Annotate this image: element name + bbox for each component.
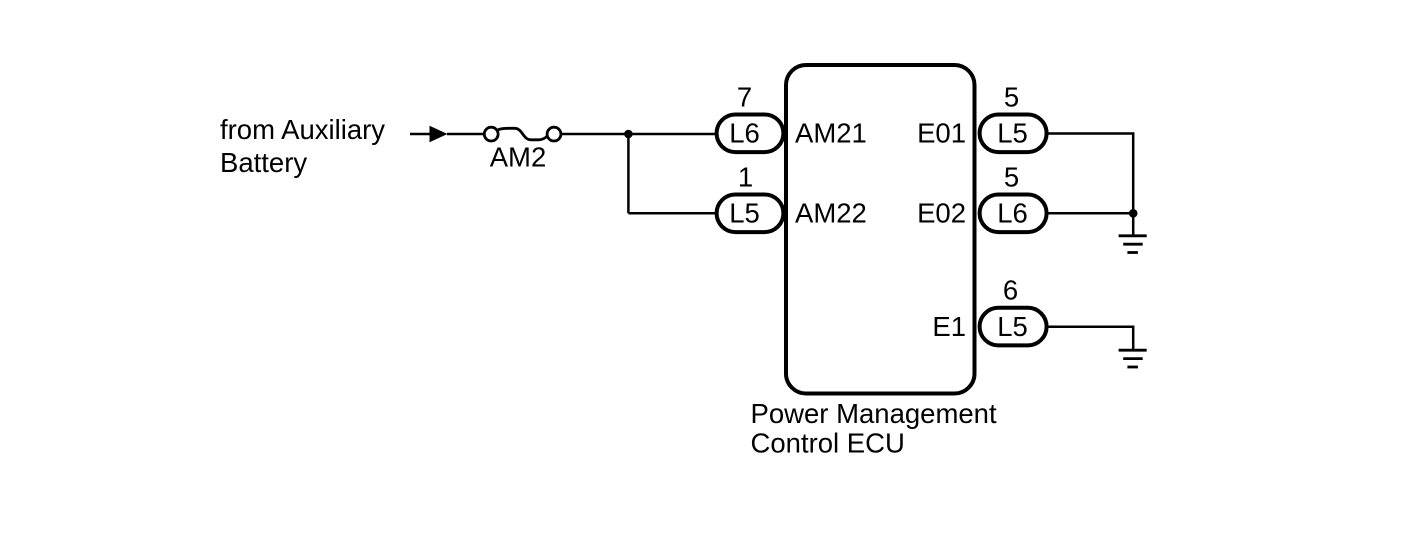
wire: node down (627, 134, 630, 213)
junction node after fuse (624, 130, 633, 139)
svg-text:L5: L5 (997, 118, 1028, 149)
svg-text:7: 7 (737, 81, 752, 112)
wire: E1 to ground (1048, 327, 1134, 350)
wire: arrow to fuse (447, 133, 485, 136)
svg-text:Control ECU: Control ECU (751, 428, 905, 459)
svg-text:AM21: AM21 (795, 118, 867, 149)
connector pin L5 (E1) (980, 308, 1047, 346)
ECU caption (751, 398, 997, 459)
fuse AM2 element (S-curve) (497, 128, 547, 140)
svg-text:L6: L6 (997, 198, 1028, 229)
ground symbol (E01/E02) (1119, 236, 1147, 253)
fuse AM2 right terminal circle (547, 127, 561, 141)
wire: E01 to ground bus (1048, 134, 1134, 214)
svg-text:6: 6 (1003, 275, 1018, 306)
connector pin L6 (E02) (980, 195, 1047, 233)
wire: source lead into arrow (410, 133, 431, 136)
svg-text:5: 5 (1004, 81, 1019, 112)
fuse AM2 left terminal circle (484, 127, 498, 141)
connector pin L5 (E01) (980, 115, 1047, 153)
wire: node down to ground (1132, 213, 1135, 236)
wire: node to pin L5 (628, 212, 716, 215)
connector pin L6 (AM21) (717, 115, 784, 153)
junction node at ground bus (1129, 209, 1138, 218)
wire: fuse to pin L6 (passes node) (562, 133, 717, 136)
wire: E02 to ground bus (1048, 212, 1134, 215)
svg-text:E01: E01 (917, 118, 966, 149)
svg-text:L5: L5 (729, 198, 760, 229)
ground symbol (E1) (1119, 350, 1147, 367)
svg-text:AM22: AM22 (795, 198, 867, 229)
ECU box: Power Management Control ECU (786, 65, 975, 394)
node label: from Auxiliary Battery (220, 114, 385, 178)
svg-text:E1: E1 (932, 311, 966, 342)
svg-text:from Auxiliary: from Auxiliary (220, 114, 385, 145)
svg-text:L5: L5 (997, 311, 1028, 342)
svg-text:E02: E02 (917, 198, 966, 229)
arrow: power feed direction (430, 126, 448, 143)
svg-text:1: 1 (738, 161, 753, 192)
svg-text:AM2: AM2 (490, 142, 547, 173)
svg-text:L6: L6 (729, 118, 760, 149)
svg-text:5: 5 (1004, 161, 1019, 192)
svg-text:Power Management: Power Management (751, 398, 997, 429)
svg-text:Battery: Battery (220, 147, 307, 178)
connector pin L5 (AM22) (717, 195, 784, 233)
